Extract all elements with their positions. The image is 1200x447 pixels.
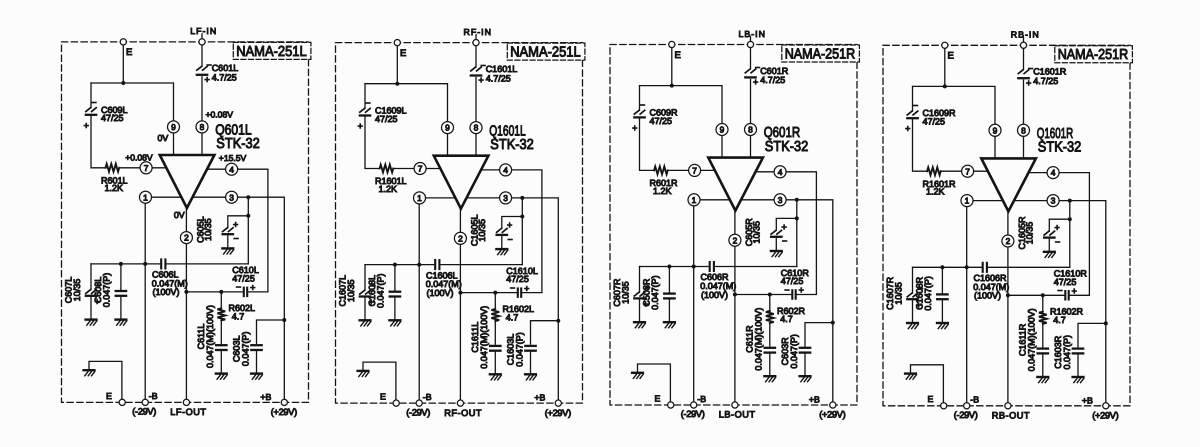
junction output/C610R xyxy=(733,293,737,297)
wire C609R branch xyxy=(639,86,641,111)
wire C609L branch xyxy=(90,83,92,108)
wire pin 3 branch to C1606L xyxy=(521,198,523,265)
capacitor C603L xyxy=(231,332,261,367)
wire C1605R to ground xyxy=(1048,239,1050,251)
svg-text:0.047(P): 0.047(P) xyxy=(514,332,524,367)
svg-text:0.047(P): 0.047(P) xyxy=(1062,335,1072,370)
terminal +B (+29V) xyxy=(1103,403,1109,409)
junction output/C1610L xyxy=(458,291,462,295)
junction pin3 branch xyxy=(795,198,799,202)
svg-text:10/35: 10/35 xyxy=(72,279,82,302)
wire pin 8 stub to amplifier xyxy=(201,133,203,155)
node RB-IN xyxy=(1020,42,1026,48)
wire C1611R to ground xyxy=(1042,355,1044,377)
svg-text:−: − xyxy=(782,236,787,246)
svg-text:8: 8 xyxy=(474,123,479,133)
wire R1602L leg xyxy=(494,293,496,309)
capacitor C1607R xyxy=(885,276,923,310)
svg-text:2: 2 xyxy=(458,233,463,243)
pin 2 xyxy=(180,232,192,244)
wire branch to C1605R xyxy=(1049,219,1070,231)
junction pin1 column xyxy=(692,265,696,269)
svg-text:LB-IN: LB-IN xyxy=(738,29,766,39)
svg-text:0.047(M)(100V): 0.047(M)(100V) xyxy=(1027,308,1037,371)
svg-text:NAMA-251L: NAMA-251L xyxy=(510,45,581,61)
svg-text:+0.08V: +0.08V xyxy=(125,152,153,162)
wire LB-IN input line xyxy=(750,36,752,41)
pin 1 xyxy=(140,191,152,203)
capacitor C1603L xyxy=(505,332,535,367)
svg-text:4: 4 xyxy=(1051,168,1056,178)
svg-text:0.047(P): 0.047(P) xyxy=(789,334,799,369)
capacitor C1603R xyxy=(1053,335,1083,370)
svg-text:9: 9 xyxy=(445,123,450,133)
capacitor C610R xyxy=(781,268,810,299)
svg-text:NAMA-251R: NAMA-251R xyxy=(785,46,856,62)
wire pin 3 to amplifier xyxy=(1014,200,1047,202)
svg-text:7: 7 xyxy=(692,166,697,176)
svg-text:+: + xyxy=(233,219,238,229)
svg-text:0.047(P): 0.047(P) xyxy=(102,273,112,308)
capacitor C1606R xyxy=(973,263,1009,301)
junction C605L branch xyxy=(246,214,250,218)
wire pin 1 down to -B xyxy=(966,207,968,403)
resistor R1601R xyxy=(923,167,957,196)
svg-text:-B: -B xyxy=(970,395,979,405)
wire C610R row xyxy=(735,294,791,296)
svg-text:+: + xyxy=(479,75,484,85)
pin 4 xyxy=(500,164,512,176)
svg-text:−: − xyxy=(91,97,96,107)
svg-text:47/25: 47/25 xyxy=(650,116,673,126)
chassis ground for E xyxy=(358,370,369,372)
pin 2 xyxy=(729,234,741,246)
wire pin 8 stub to amplifier xyxy=(750,136,752,158)
wire node to pin 9 xyxy=(913,86,996,124)
wire pin 1 to amplifier xyxy=(152,196,181,198)
pin 3 xyxy=(500,192,512,204)
wire RF-IN input line xyxy=(475,35,477,40)
wire resistor to pin 7 xyxy=(119,167,140,169)
svg-text:9: 9 xyxy=(720,125,725,135)
svg-text:−: − xyxy=(640,100,645,110)
wire pin 4 to supply column xyxy=(755,171,774,173)
svg-text:1: 1 xyxy=(965,196,970,206)
ground for C605L xyxy=(222,247,233,249)
pin 8 xyxy=(470,122,482,134)
wire C606R row xyxy=(640,266,709,268)
wire pin 3 branch to C606L xyxy=(247,197,249,264)
svg-text:7: 7 xyxy=(144,163,149,173)
wire pin 9 stub to amplifier xyxy=(173,133,175,155)
svg-text:0.047(M)(100V): 0.047(M)(100V) xyxy=(205,305,215,368)
pin 1 xyxy=(414,192,426,204)
wire R1602R leg xyxy=(1042,295,1044,311)
junction C1603R/+B xyxy=(1104,321,1108,325)
svg-text:0.047(M)(100V): 0.047(M)(100V) xyxy=(479,306,489,369)
capacitor C609L xyxy=(84,97,128,130)
wire C611L to ground xyxy=(220,352,222,374)
capacitor C1607L xyxy=(338,275,376,307)
wire C1606R row xyxy=(913,266,982,268)
wire C605L to ground xyxy=(227,236,229,248)
svg-text:(100V): (100V) xyxy=(974,291,1001,301)
terminal -B (-29V) xyxy=(142,399,148,405)
pin 7 xyxy=(689,164,701,176)
wire pin 9 stub to amplifier xyxy=(994,136,996,158)
wire branch to C605L xyxy=(228,216,249,228)
svg-text:4: 4 xyxy=(229,164,234,174)
capacitor C606R xyxy=(700,262,736,300)
wire pin 1 down to -B xyxy=(418,204,420,400)
capacitor C606L xyxy=(152,259,188,297)
svg-text:0.047(P): 0.047(P) xyxy=(650,275,660,310)
svg-text:+: + xyxy=(84,120,89,130)
wire pin 3 to amplifier xyxy=(467,197,500,199)
svg-text:LF-OUT: LF-OUT xyxy=(170,407,206,417)
op-amp Q601L xyxy=(160,123,260,208)
svg-text:3: 3 xyxy=(1051,196,1056,206)
ground for C1603L xyxy=(525,373,536,375)
junction node E/pin9 xyxy=(670,84,674,88)
svg-text:−: − xyxy=(234,234,239,244)
capacitor C608L xyxy=(93,273,126,308)
capacitor C1601L xyxy=(471,61,517,85)
svg-text:+: + xyxy=(250,283,255,293)
ground for C603R xyxy=(800,375,811,377)
junction C603L/+B xyxy=(282,318,286,322)
svg-text:RB-IN: RB-IN xyxy=(1011,30,1040,40)
resistor R601R xyxy=(650,167,679,196)
wire pin 4 to supply column xyxy=(481,169,500,171)
ground for C1607R xyxy=(907,322,918,324)
wire pin 1 down to -B xyxy=(693,206,695,402)
wire branch to C1605L xyxy=(502,217,523,229)
svg-text:1: 1 xyxy=(143,192,148,202)
svg-text:10/35: 10/35 xyxy=(1024,222,1034,245)
svg-text:NAMA-251R: NAMA-251R xyxy=(1058,47,1129,63)
wire C1610L row xyxy=(460,292,516,294)
chassis ground for E xyxy=(905,372,916,374)
ground for C1608R xyxy=(937,322,948,324)
svg-text:4.7/25: 4.7/25 xyxy=(486,73,511,83)
terminal RF-OUT xyxy=(457,400,463,406)
wire E-top to node xyxy=(671,48,673,86)
wire resistor to pin 7 xyxy=(941,170,962,172)
wire pin 4 to supply column xyxy=(1028,172,1047,174)
junction C605R branch xyxy=(795,216,799,220)
junction C1608R top xyxy=(940,265,944,269)
op-amp Q1601L xyxy=(434,123,534,208)
node LF-IN xyxy=(199,39,205,45)
svg-text:+B: +B xyxy=(534,393,545,403)
wire E-top to node xyxy=(396,46,398,84)
capacitor C611R xyxy=(745,308,775,371)
wire pin 1 to amplifier xyxy=(700,199,729,201)
junction C1603L/+B xyxy=(556,319,560,323)
wire C603R branch xyxy=(805,323,833,346)
module name box NAMA-251L xyxy=(507,43,585,60)
ground for C607R xyxy=(634,321,645,323)
resistor R601L xyxy=(101,164,128,193)
wire node to pin 9 xyxy=(91,83,174,121)
pin 8 xyxy=(745,124,757,136)
wire C1608R leg xyxy=(941,267,943,293)
svg-text:−: − xyxy=(784,285,789,295)
junction C1608L top xyxy=(393,263,397,267)
svg-text:E: E xyxy=(655,393,661,403)
capacitor C1605L xyxy=(469,215,512,247)
pin 2 xyxy=(1002,235,1014,247)
terminal E bottom xyxy=(119,399,125,405)
svg-text:E: E xyxy=(400,48,406,59)
wire pin 9 stub to amplifier xyxy=(721,136,723,158)
wire resistor to pin 7 xyxy=(668,169,689,171)
capacitor C1610L xyxy=(506,266,538,297)
svg-text:2: 2 xyxy=(184,233,189,243)
wire E-bottom to chassis ground xyxy=(911,365,944,403)
junction output/C1610R xyxy=(1006,293,1010,297)
wire pin 3 to amplifier xyxy=(193,196,226,198)
junction node E/pin9 xyxy=(395,82,399,86)
svg-text:(-29V): (-29V) xyxy=(954,410,978,420)
junction C508R top xyxy=(667,265,671,269)
junction pin1 column xyxy=(143,262,147,266)
svg-text:9: 9 xyxy=(993,125,998,135)
chassis ground for E xyxy=(84,369,95,371)
capacitor C1611L xyxy=(470,306,500,369)
svg-text:+B: +B xyxy=(1082,395,1093,405)
svg-text:+: + xyxy=(358,121,363,131)
resistor R602L xyxy=(217,303,255,321)
junction node E/pin9 xyxy=(943,84,947,88)
svg-text:+: + xyxy=(205,75,210,85)
wire C1603R to ground xyxy=(1077,355,1079,377)
capacitor C1609R xyxy=(905,101,956,134)
ground for C1607L xyxy=(360,319,371,321)
terminal E bottom xyxy=(668,402,674,408)
ground for C1605R xyxy=(1044,251,1055,253)
svg-text:4: 4 xyxy=(778,167,783,177)
svg-text:8: 8 xyxy=(200,122,205,132)
svg-text:3: 3 xyxy=(778,195,783,205)
wire C610L row xyxy=(186,291,242,293)
junction C1605R branch xyxy=(1068,217,1072,221)
wire C1607L leg xyxy=(364,265,366,291)
svg-text:(100V): (100V) xyxy=(153,287,180,297)
terminal -B (-29V) xyxy=(416,400,422,406)
svg-text:−: − xyxy=(365,98,370,108)
wire R602L leg xyxy=(220,292,222,308)
wire C1609L branch xyxy=(364,84,366,109)
svg-text:STK-32: STK-32 xyxy=(1038,140,1082,156)
wire pin 1 to amplifier xyxy=(426,197,455,199)
pin 9 xyxy=(168,121,180,133)
wire node to pin 9 xyxy=(365,84,448,122)
chassis ground for E xyxy=(632,372,643,374)
capacitor C1608L xyxy=(367,273,400,308)
wire pin 7 to amplifier xyxy=(974,170,989,172)
wire C1603L branch xyxy=(531,321,559,344)
svg-text:(-29V): (-29V) xyxy=(406,407,430,417)
svg-text:10/35: 10/35 xyxy=(477,219,487,242)
svg-text:−: − xyxy=(508,234,513,244)
svg-text:10/35: 10/35 xyxy=(893,282,903,305)
svg-text:-B: -B xyxy=(149,391,158,401)
wire pin 2 down to LF-OUT xyxy=(185,244,187,400)
wire C1608L leg xyxy=(394,265,396,291)
svg-text:8: 8 xyxy=(1021,125,1026,135)
capacitor C605R xyxy=(744,218,787,247)
svg-text:3: 3 xyxy=(229,192,234,202)
pin 7 xyxy=(140,162,152,174)
terminal +B (+29V) xyxy=(281,399,287,405)
wire pin 7 to amplifier xyxy=(152,167,167,169)
capacitor C1611R xyxy=(1018,308,1048,371)
svg-text:(+29V): (+29V) xyxy=(545,408,571,418)
wire pin 7 to amplifier xyxy=(426,168,441,170)
wire resistor to pin 7 xyxy=(393,168,414,170)
wire R602R leg xyxy=(769,295,771,311)
svg-text:+B: +B xyxy=(809,395,820,405)
capacitor C1606L xyxy=(426,260,462,298)
capacitor C601R xyxy=(745,63,788,88)
resistor R1602L xyxy=(491,304,534,322)
wire C1607R leg xyxy=(912,267,914,293)
svg-text:47/25: 47/25 xyxy=(375,114,398,124)
terminal +B (+29V) xyxy=(555,400,561,406)
module name box NAMA-251L xyxy=(233,42,311,59)
wire pin 3 to +B column xyxy=(238,197,285,399)
svg-text:10/35: 10/35 xyxy=(751,221,761,244)
wire amplifier output pin 2 xyxy=(185,208,187,232)
pin 4 xyxy=(1047,167,1059,179)
svg-text:RB-OUT: RB-OUT xyxy=(992,411,1030,421)
wire C1605L to ground xyxy=(501,237,503,249)
wire C607L leg xyxy=(90,264,92,290)
svg-text:0.047(P): 0.047(P) xyxy=(376,273,386,308)
wire pin 9 stub to amplifier xyxy=(447,134,449,156)
svg-text:3: 3 xyxy=(503,193,508,203)
pin 8 xyxy=(196,121,208,133)
terminal E top xyxy=(669,41,675,47)
svg-text:STK-32: STK-32 xyxy=(216,136,259,152)
svg-text:-B: -B xyxy=(423,392,432,402)
pin 4 xyxy=(774,166,786,178)
svg-text:47/25: 47/25 xyxy=(923,117,946,127)
svg-text:+: + xyxy=(905,124,910,134)
ground for C1605L xyxy=(496,248,507,250)
wire C607R leg xyxy=(639,267,641,293)
wire E-bottom to chassis ground xyxy=(638,364,671,402)
terminal -B (-29V) xyxy=(964,403,970,409)
svg-text:+: + xyxy=(753,77,758,87)
svg-text:+: + xyxy=(1055,223,1060,233)
wire C603L to ground xyxy=(256,352,258,374)
svg-text:4.7/25: 4.7/25 xyxy=(212,73,237,83)
node RF-IN xyxy=(473,40,479,46)
svg-text:E: E xyxy=(126,47,132,58)
wire LF-IN input line xyxy=(201,34,203,39)
terminal E top xyxy=(942,42,948,48)
capacitor C610L xyxy=(232,265,259,296)
junction R1602R top xyxy=(1041,293,1045,297)
ground for C1608L xyxy=(390,319,401,321)
svg-text:0.047(P): 0.047(P) xyxy=(240,332,250,367)
svg-text:+: + xyxy=(1026,78,1031,88)
svg-text:4.7: 4.7 xyxy=(1053,315,1066,325)
pin 8 xyxy=(1018,124,1030,136)
wire pin 1 down to -B xyxy=(144,203,146,399)
wire C1611L to ground xyxy=(494,352,496,374)
svg-text:47/25: 47/25 xyxy=(101,113,124,123)
wire C508R leg xyxy=(668,267,670,293)
svg-text:+: + xyxy=(1072,286,1077,296)
terminal LB-OUT xyxy=(732,402,738,408)
wire pin 3 branch to C1606R xyxy=(1069,201,1071,268)
node LB-IN xyxy=(747,41,753,47)
wire pin 3 to +B column xyxy=(1059,201,1106,403)
ground for C611L xyxy=(216,372,227,374)
svg-text:+: + xyxy=(507,220,512,230)
svg-text:1: 1 xyxy=(692,195,697,205)
wire pin 8 stub to amplifier xyxy=(1023,136,1025,158)
ground for C1611R xyxy=(1037,376,1048,378)
wire pin 3 branch to C606R xyxy=(796,200,798,267)
wire E-top to node xyxy=(122,45,124,83)
ground for C605R xyxy=(771,250,782,252)
wire pin 3 to +B column xyxy=(786,200,833,402)
capacitor C601L xyxy=(197,60,238,85)
svg-text:4.7: 4.7 xyxy=(232,312,245,322)
ground for C508R xyxy=(664,321,675,323)
svg-text:−: − xyxy=(1057,286,1062,296)
svg-text:E: E xyxy=(948,51,954,62)
svg-text:4.7/25: 4.7/25 xyxy=(1033,76,1058,86)
op-amp Q1601R xyxy=(981,126,1081,211)
junction C603R/+B xyxy=(831,321,835,325)
svg-text:(-29V): (-29V) xyxy=(132,407,156,417)
capacitor C1610R xyxy=(1054,269,1088,300)
resistor R602R xyxy=(766,306,806,324)
capacitor C609R xyxy=(632,100,678,133)
svg-text:4.7/25: 4.7/25 xyxy=(760,75,785,85)
svg-text:7: 7 xyxy=(418,164,423,174)
pin 3 xyxy=(1047,195,1059,207)
wire C603R to ground xyxy=(804,354,806,376)
junction R1602L top xyxy=(493,291,497,295)
wire pin 1 to amplifier xyxy=(973,200,1002,202)
svg-text:2: 2 xyxy=(1006,236,1011,246)
junction pin3 branch xyxy=(520,196,524,200)
capacitor C1601R xyxy=(1018,63,1066,88)
svg-text:1.2K: 1.2K xyxy=(926,187,945,197)
terminal E bottom xyxy=(941,403,947,409)
svg-text:LF-IN: LF-IN xyxy=(190,26,217,36)
capacitor C605L xyxy=(195,216,238,243)
wire pin 7 to amplifier xyxy=(701,169,716,171)
junction output/C610L xyxy=(184,290,188,294)
svg-text:(-29V): (-29V) xyxy=(681,409,705,419)
svg-text:10/35: 10/35 xyxy=(346,279,356,302)
wire C1603L to ground xyxy=(530,352,532,374)
svg-text:4.7: 4.7 xyxy=(780,314,793,324)
svg-text:STK-32: STK-32 xyxy=(490,137,534,153)
terminal E top xyxy=(394,40,400,46)
junction R602R top xyxy=(768,293,772,297)
resistor R1601L xyxy=(375,165,407,194)
svg-text:4.7: 4.7 xyxy=(506,312,519,322)
